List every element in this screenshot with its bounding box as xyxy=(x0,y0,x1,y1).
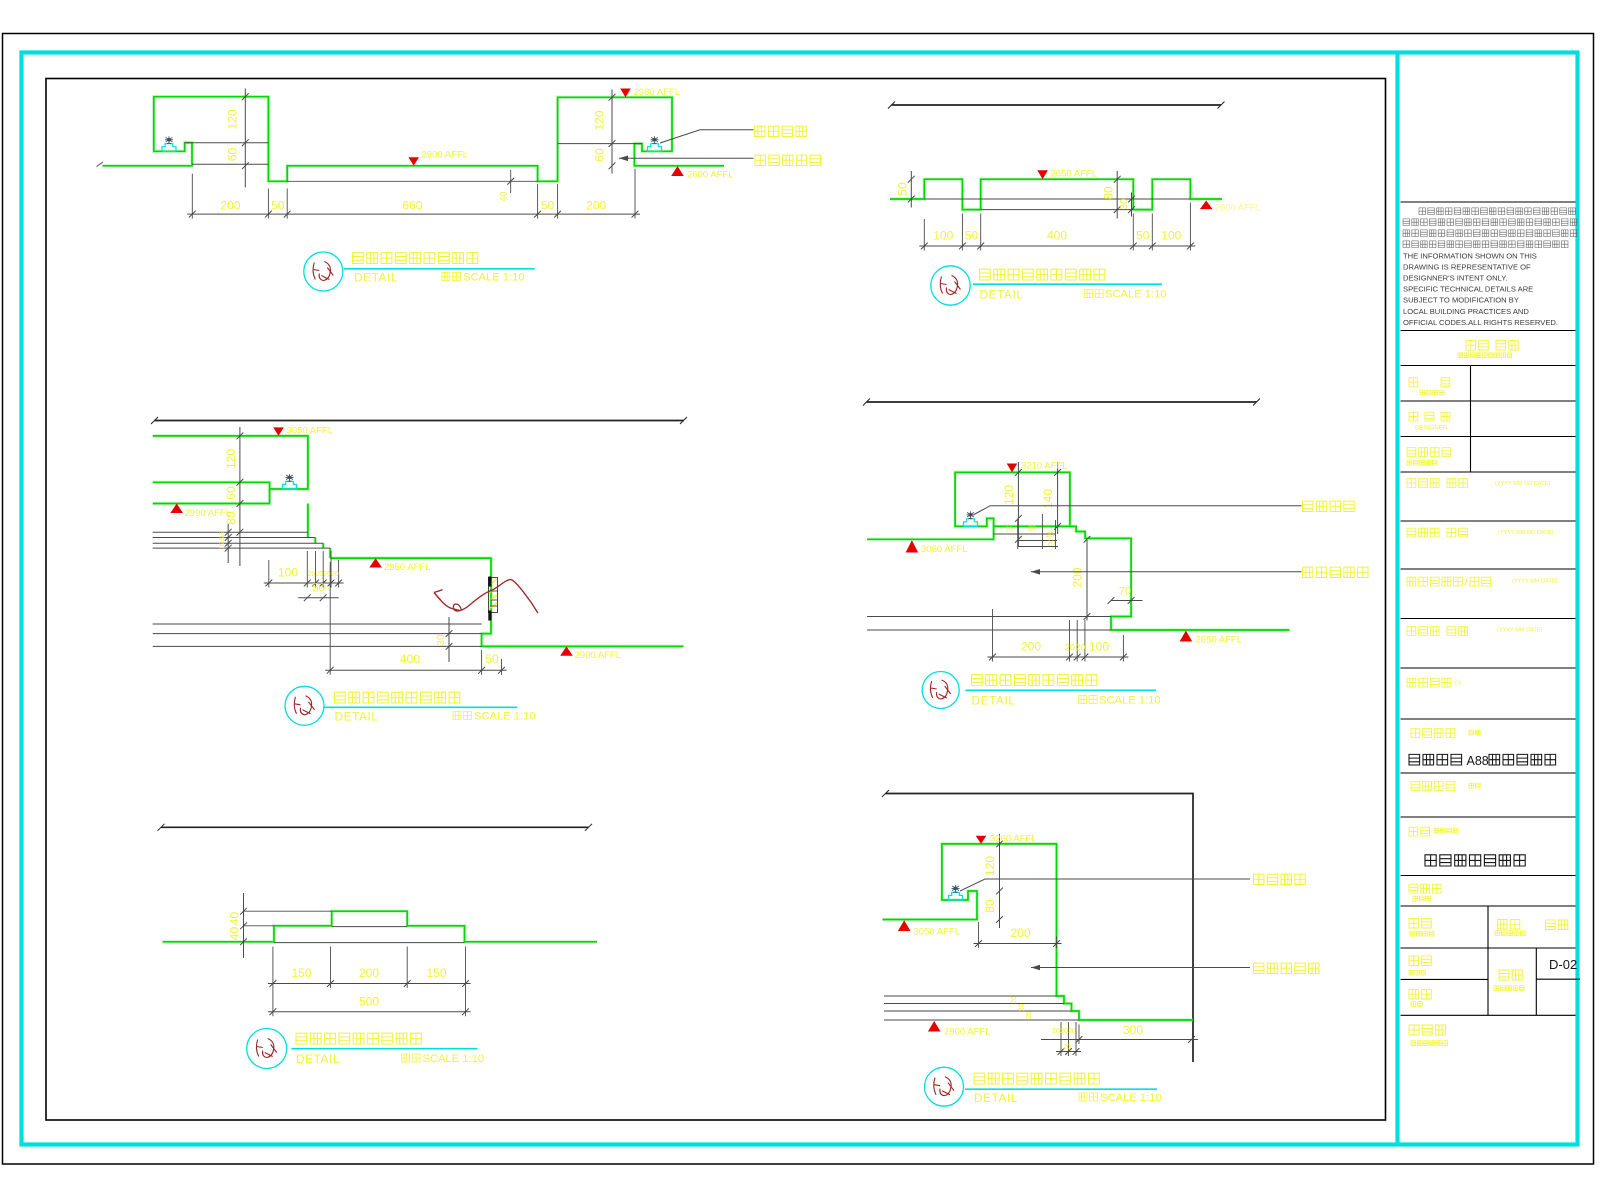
D3 curtain track section xyxy=(489,578,498,613)
D4 leader: concealed lamp tube xyxy=(974,506,1302,515)
svg-text:500: 500 xyxy=(359,995,379,1009)
D2 right vertical dimensions xyxy=(1116,171,1118,219)
field: design no. xyxy=(1409,884,1441,893)
svg-text:A88: A88 xyxy=(1467,754,1489,768)
field: phase xyxy=(1546,920,1568,930)
svg-text:50: 50 xyxy=(312,581,326,595)
svg-text:60: 60 xyxy=(224,486,238,500)
svg-text:50: 50 xyxy=(271,199,285,213)
D2 left vertical dimension xyxy=(910,171,912,208)
svg-text:50: 50 xyxy=(541,199,555,213)
svg-text:2990 AFFL: 2990 AFFL xyxy=(185,508,231,519)
field: revision xyxy=(1409,918,1431,928)
svg-text:DETAIL: DETAIL xyxy=(335,710,379,724)
svg-text:200: 200 xyxy=(1010,926,1030,940)
field: owner xyxy=(1409,378,1418,387)
title text (CJK) xyxy=(980,269,1105,280)
svg-text:SCALE 1:10: SCALE 1:10 xyxy=(1100,1092,1162,1104)
svg-text:DETAIL: DETAIL xyxy=(980,288,1024,302)
project name value xyxy=(1409,754,1462,765)
drawing name value xyxy=(1425,855,1525,866)
D4 level marker 2650 AFFL xyxy=(1180,631,1193,642)
disclaimer chinese text xyxy=(1419,208,1575,215)
field: drawing number label xyxy=(1499,970,1522,980)
D1 level marker 2980 AFFL xyxy=(620,89,631,98)
D6 bottom dimension 300 xyxy=(1041,1039,1198,1041)
D4 drop height dimension 200 xyxy=(1086,540,1088,621)
D4 bottom dimension chain xyxy=(988,656,1129,658)
svg-text:200: 200 xyxy=(359,966,379,980)
svg-text:40: 40 xyxy=(228,927,242,941)
svg-text:20: 20 xyxy=(1046,532,1054,539)
svg-text:50: 50 xyxy=(1136,229,1150,243)
scale label xyxy=(1079,1093,1098,1101)
D6 wall corner (black) xyxy=(886,794,1194,1063)
svg-text:20: 20 xyxy=(1065,643,1075,653)
svg-text:60: 60 xyxy=(226,148,240,162)
svg-text:3060 AFFL: 3060 AFFL xyxy=(921,544,967,555)
scale label xyxy=(453,712,472,720)
svg-text:20: 20 xyxy=(331,571,339,578)
svg-text:400: 400 xyxy=(400,652,420,666)
svg-text:20: 20 xyxy=(308,571,316,578)
svg-text:DRAWING IS REPRESENTATIVE OF: DRAWING IS REPRESENTATIVE OF xyxy=(1403,263,1531,272)
svg-text:2900 AFFL: 2900 AFFL xyxy=(944,1027,990,1038)
title underline xyxy=(973,283,1162,285)
svg-text:SCALE 1:10: SCALE 1:10 xyxy=(423,1053,485,1065)
svg-text:DETAIL: DETAIL xyxy=(354,271,398,285)
title underline xyxy=(292,1048,478,1050)
D1 bottom dimension chain xyxy=(187,213,640,215)
detail title bubble xyxy=(925,1067,964,1106)
DETAIL 3: living-room stepped cove profile (green) xyxy=(153,436,308,489)
DETAIL 2: corridor ceiling profile (green) xyxy=(890,179,1222,209)
D2 level marker 2600 AFFL xyxy=(1200,201,1213,210)
field: chief designer/date xyxy=(1407,577,1462,586)
D4 box vertical dimensions xyxy=(1017,462,1019,547)
field: drawing name label xyxy=(1409,827,1430,836)
svg-text:20: 20 xyxy=(1060,1028,1068,1035)
svg-text:(YYYY MM DD DATE): (YYYY MM DD DATE) xyxy=(1498,530,1553,536)
D3 level marker 2950 AFFL xyxy=(369,558,382,567)
D2 bottom dimension chain xyxy=(919,245,1195,247)
D6 dimension 200 xyxy=(974,943,1062,945)
svg-text:20: 20 xyxy=(1063,1044,1071,1051)
D4 recessed downlight xyxy=(964,519,978,527)
svg-text:15: 15 xyxy=(219,542,226,550)
D1 level marker 2600 AFFL xyxy=(671,166,684,176)
svg-text:20: 20 xyxy=(1026,1011,1033,1019)
D3 small step dimensions xyxy=(264,582,344,584)
scale label xyxy=(1085,290,1104,298)
svg-text:100: 100 xyxy=(278,566,298,580)
D2 structural slab line xyxy=(892,104,1222,106)
D2 level marker 2650 AFFL xyxy=(1037,170,1048,179)
svg-text:40: 40 xyxy=(228,912,242,926)
D3 level marker 2990 AFFL xyxy=(170,504,183,514)
D3 level marker 3050 AFFL xyxy=(273,427,284,436)
svg-text:200: 200 xyxy=(1021,640,1041,654)
svg-text:3050 AFFL: 3050 AFFL xyxy=(287,426,333,437)
svg-text:300: 300 xyxy=(1123,1023,1143,1037)
D3 recessed downlight xyxy=(282,481,296,489)
svg-text:DETAIL: DETAIL xyxy=(972,694,1016,708)
D6 vertical dimension xyxy=(999,834,1001,928)
svg-text:(YYYY MM DD DATE): (YYYY MM DD DATE) xyxy=(1495,481,1550,487)
svg-text:30: 30 xyxy=(1119,198,1130,210)
svg-text:2600 AFFL: 2600 AFFL xyxy=(1215,203,1261,214)
detail title bubble xyxy=(304,252,343,291)
field: scale xyxy=(1409,956,1431,966)
svg-text:DESIGNNER'S INTENT ONLY.: DESIGNNER'S INTENT ONLY. xyxy=(1403,274,1507,283)
svg-text:200: 200 xyxy=(1071,567,1085,587)
svg-text:2650 AFFL: 2650 AFFL xyxy=(1051,169,1097,180)
D4 leader: ceiling latex paint xyxy=(1031,569,1040,575)
svg-text:2980 AFFL: 2980 AFFL xyxy=(634,87,680,98)
svg-text:DESIGNER: DESIGNER xyxy=(1415,425,1448,432)
D5 dimension chain 150/200/150 xyxy=(268,983,471,985)
field: draftsman/date xyxy=(1407,627,1439,636)
D3 long hidden lines xyxy=(153,623,482,625)
DETAIL 1: entrance ceiling profile (green) xyxy=(103,97,725,182)
D4 hidden lines xyxy=(867,616,1111,618)
svg-text:120: 120 xyxy=(983,856,997,876)
svg-text:60: 60 xyxy=(593,148,607,162)
svg-text:80: 80 xyxy=(983,899,997,913)
D5 overall dimension 500 xyxy=(268,1011,471,1013)
title text (CJK) xyxy=(335,692,460,703)
svg-text:20: 20 xyxy=(1047,541,1055,548)
cyan title-block divider xyxy=(1395,51,1399,1147)
svg-text:3260 AFFL: 3260 AFFL xyxy=(990,834,1036,845)
D4 structural slab line xyxy=(867,401,1257,403)
D3 level marker 2900 AFFL xyxy=(560,646,573,655)
title text (CJK) xyxy=(972,675,1097,686)
D6 hidden step edges xyxy=(884,995,1057,997)
svg-text:20: 20 xyxy=(1075,643,1085,653)
field: project number label xyxy=(1411,782,1455,791)
D1 leader: putty + latex paint xyxy=(619,156,628,162)
D6 level marker 2900 AFFL xyxy=(928,1021,941,1032)
D5 structural slab line xyxy=(161,826,589,828)
svg-text:(YYYY MM DATE): (YYYY MM DATE) xyxy=(1497,628,1543,634)
scale label xyxy=(402,1054,421,1062)
title text (CJK) xyxy=(353,253,478,264)
D3 curtain pocket vertical dimension xyxy=(448,617,450,662)
D1 right vertical dimension xyxy=(611,90,613,174)
detail title bubble xyxy=(922,672,959,709)
detail title bubble xyxy=(285,686,324,725)
svg-text:3050 AFFL: 3050 AFFL xyxy=(914,927,960,938)
svg-text:200: 200 xyxy=(220,199,240,213)
D3 step fan dimension xyxy=(227,524,229,563)
svg-text:SCALE 1:10: SCALE 1:10 xyxy=(1099,695,1161,707)
svg-text:SUBJECT TO MODIFICATION BY: SUBJECT TO MODIFICATION BY xyxy=(1403,296,1519,305)
svg-text:LOCAL BUILDING PRACTICES AND: LOCAL BUILDING PRACTICES AND xyxy=(1403,307,1529,316)
field: project name label xyxy=(1411,729,1455,738)
svg-text:3210 AFFL: 3210 AFFL xyxy=(1021,461,1067,472)
svg-text:2650 AFFL: 2650 AFFL xyxy=(1196,635,1242,646)
title block horizontal dividers xyxy=(1401,201,1576,203)
svg-text:OFFICIAL CODES.ALL RIGHTS RESE: OFFICIAL CODES.ALL RIGHTS RESERVED. xyxy=(1403,318,1558,327)
svg-text:150: 150 xyxy=(291,966,311,980)
D1 level marker 2900 AFFL xyxy=(408,157,419,166)
svg-text:( ): ( ) xyxy=(1455,679,1461,686)
svg-text:/: / xyxy=(1465,577,1469,589)
svg-text:100: 100 xyxy=(1089,640,1109,654)
svg-text:120: 120 xyxy=(593,110,607,130)
D1 recessed downlight left xyxy=(162,144,176,152)
svg-text:50: 50 xyxy=(965,229,979,243)
D1 baseline break tick xyxy=(97,162,104,167)
svg-text:20: 20 xyxy=(1011,996,1018,1004)
svg-text:20: 20 xyxy=(1005,527,1013,534)
inner drawing-area black frame xyxy=(46,79,1386,1121)
D3 hidden step edges xyxy=(153,531,308,533)
scale label xyxy=(442,273,461,281)
svg-text:DETAIL: DETAIL xyxy=(296,1052,340,1066)
svg-text:100: 100 xyxy=(1161,229,1181,243)
svg-text:2900 AFFL: 2900 AFFL xyxy=(422,150,468,161)
title underline xyxy=(344,268,535,270)
svg-text:2600 AFFL: 2600 AFFL xyxy=(687,170,733,181)
D1 hidden edges xyxy=(185,142,269,144)
D6 leader: concealed lamp tube xyxy=(960,879,1250,891)
DETAIL 4: dining-room cove profile (green) xyxy=(867,472,1070,539)
field: construction unit xyxy=(1407,678,1451,687)
D3 left vertical dimension xyxy=(239,427,241,566)
field: project manager xyxy=(1407,448,1451,457)
svg-text:2900 AFFL: 2900 AFFL xyxy=(575,650,621,661)
svg-text:50: 50 xyxy=(485,652,499,666)
svg-text:150: 150 xyxy=(426,966,446,980)
D6 level marker 3260 AFFL xyxy=(976,836,987,844)
svg-text:400: 400 xyxy=(1047,229,1067,243)
D3 bottom dimension chain xyxy=(325,669,506,671)
D4 dimension 70 xyxy=(1111,600,1143,602)
svg-text:THE INFORMATION SHOWN ON THIS: THE INFORMATION SHOWN ON THIS xyxy=(1403,252,1537,261)
svg-text:660: 660 xyxy=(402,199,422,213)
D5 left vertical dimension xyxy=(243,893,245,958)
detail title bubble xyxy=(931,266,970,305)
svg-text:(YYYY MM DATE): (YYYY MM DATE) xyxy=(1512,579,1558,585)
svg-text:20: 20 xyxy=(1019,1004,1026,1012)
field: issue stamp xyxy=(1409,1025,1446,1035)
svg-text:SPECIFIC TECHNICAL DETAILS ARE: SPECIFIC TECHNICAL DETAILS ARE xyxy=(1403,285,1533,294)
svg-text:DETAIL: DETAIL xyxy=(974,1091,1018,1105)
svg-text:80: 80 xyxy=(1102,186,1116,200)
svg-text:20: 20 xyxy=(1028,526,1036,533)
svg-text:120: 120 xyxy=(224,449,238,469)
svg-text:70: 70 xyxy=(1119,586,1131,598)
svg-text:2950 AFFL: 2950 AFFL xyxy=(384,562,430,573)
svg-text:100: 100 xyxy=(933,229,953,243)
D1 leader: concealed lamp tube xyxy=(660,130,754,143)
D4 level marker 3060 AFFL xyxy=(906,540,919,552)
field: proofreader/date xyxy=(1407,528,1439,537)
field: date xyxy=(1409,989,1431,999)
D3 structural slab line xyxy=(155,420,684,422)
DETAIL 5: ceiling bump profile (green) xyxy=(163,911,598,942)
title underline xyxy=(324,706,517,708)
svg-text:SCALE 1:10: SCALE 1:10 xyxy=(474,711,536,723)
field: specialty xyxy=(1498,919,1520,929)
title underline xyxy=(965,1088,1157,1090)
svg-text:D-02: D-02 xyxy=(1549,957,1577,972)
D1 recessed downlight right xyxy=(648,144,662,152)
D3 revision mark-up spline (dark red) xyxy=(434,580,538,613)
D1 left vertical dimension xyxy=(244,89,246,188)
svg-text:50: 50 xyxy=(896,182,910,196)
field: checker/date xyxy=(1407,479,1439,488)
svg-text:20: 20 xyxy=(315,571,323,578)
title underline xyxy=(966,689,1157,691)
scale label xyxy=(1079,696,1098,704)
D6 leader: ceiling latex paint xyxy=(1031,965,1040,971)
DETAIL 6: guest-room cove profile (green) xyxy=(883,844,1194,1020)
D4 level marker 3210 AFFL xyxy=(1007,464,1018,473)
detail title bubble xyxy=(247,1029,287,1069)
field: sign/date xyxy=(1466,340,1488,350)
field: designer xyxy=(1409,412,1418,421)
D2 hidden edges xyxy=(924,198,1190,200)
title text (CJK) xyxy=(974,1073,1099,1084)
svg-text:SCALE 1:10: SCALE 1:10 xyxy=(1105,289,1167,301)
D5 hidden edges xyxy=(332,926,408,928)
svg-text:120: 120 xyxy=(1002,485,1016,505)
D6 level marker 3050 AFFL xyxy=(898,920,911,931)
svg-text:120: 120 xyxy=(226,109,240,129)
D6 recessed downlight xyxy=(949,892,963,900)
title block vertical dividers xyxy=(1470,366,1472,473)
svg-text:40: 40 xyxy=(499,191,509,201)
D6 small step dims below xyxy=(1056,1051,1081,1053)
title text (CJK) xyxy=(296,1033,421,1044)
svg-text:20: 20 xyxy=(1052,1028,1060,1035)
svg-text:30: 30 xyxy=(436,634,447,646)
svg-text:20: 20 xyxy=(1068,1028,1076,1035)
svg-text:SCALE 1:10: SCALE 1:10 xyxy=(463,272,525,284)
svg-text:200: 200 xyxy=(586,199,606,213)
